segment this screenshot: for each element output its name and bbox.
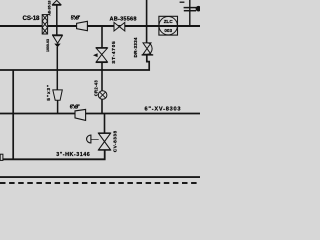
svg-text:AB-35-18: AB-35-18 bbox=[48, 1, 52, 16]
svg-text:ZLC: ZLC bbox=[164, 19, 174, 24]
svg-text:DR-3334: DR-3334 bbox=[133, 37, 138, 57]
svg-text:CS-18: CS-18 bbox=[23, 15, 41, 22]
svg-text:1000-03: 1000-03 bbox=[46, 39, 50, 52]
svg-text:ST-4705: ST-4705 bbox=[111, 41, 117, 64]
svg-text:CV-8338: CV-8338 bbox=[113, 130, 119, 152]
svg-text:5"x9": 5"x9" bbox=[71, 15, 81, 21]
svg-text:6"x9": 6"x9" bbox=[70, 105, 81, 111]
svg-text:6"-XV-8303: 6"-XV-8303 bbox=[145, 106, 181, 112]
svg-text:CR2-43: CR2-43 bbox=[94, 80, 99, 97]
svg-text:003: 003 bbox=[164, 28, 172, 33]
svg-text:5"x3": 5"x3" bbox=[46, 85, 52, 101]
svg-text:AB-35568: AB-35568 bbox=[110, 16, 137, 22]
svg-text:3"-HK-3146: 3"-HK-3146 bbox=[56, 152, 89, 158]
